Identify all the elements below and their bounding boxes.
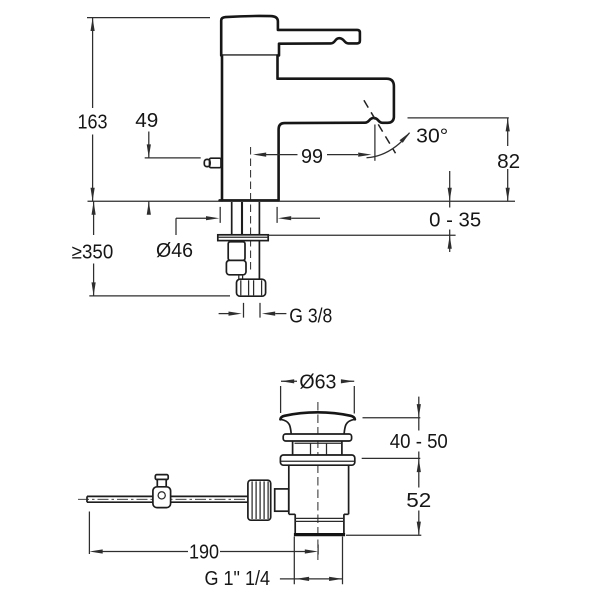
- svg-text:Ø46: Ø46: [156, 240, 193, 262]
- svg-text:Ø63: Ø63: [299, 372, 336, 394]
- svg-text:≥350: ≥350: [72, 242, 114, 264]
- svg-text:G 3/8: G 3/8: [289, 305, 332, 327]
- svg-text:52: 52: [406, 490, 431, 512]
- svg-text:49: 49: [135, 110, 158, 132]
- svg-text:163: 163: [78, 112, 108, 134]
- svg-text:40 - 50: 40 - 50: [390, 431, 448, 453]
- svg-text:82: 82: [497, 151, 520, 173]
- svg-text:30°: 30°: [416, 125, 448, 147]
- svg-text:G 1" 1/4: G 1" 1/4: [205, 568, 271, 590]
- svg-text:99: 99: [301, 146, 323, 168]
- svg-text:190: 190: [189, 541, 219, 563]
- svg-text:0 - 35: 0 - 35: [429, 209, 481, 231]
